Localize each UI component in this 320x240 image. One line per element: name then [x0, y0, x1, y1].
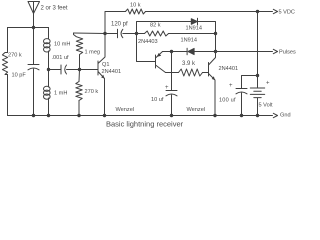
node 10uf junction: [170, 50, 173, 53]
node 2N4403 base junction: [135, 32, 138, 35]
wire bottom rail: [8, 115, 273, 117]
transistor 2N4403: [156, 52, 166, 73]
arrow Gnd: [273, 113, 277, 117]
resistor 82k: [137, 33, 145, 35]
wire 10uf column: [171, 52, 173, 91]
resistor 1meg: [74, 33, 83, 59]
svg-text:Pulses: Pulses: [279, 50, 296, 56]
wire diode bypass branch: [137, 22, 192, 34]
svg-text:Wenzel: Wenzel: [116, 107, 135, 113]
svg-text:270 k: 270 k: [85, 89, 99, 95]
wire below 1mH: [48, 98, 50, 116]
wire top rail to 5VDC: [146, 11, 273, 13]
wire 3.9k to Q2 base: [203, 72, 209, 74]
svg-text:+: +: [165, 85, 169, 91]
wire 1meg bottom lead: [79, 59, 81, 70]
capacitor .001uf: [61, 65, 67, 74]
svg-text:1N914: 1N914: [181, 38, 197, 44]
wire coil column top: [48, 28, 50, 40]
svg-text:10 mH: 10 mH: [54, 42, 70, 48]
svg-text:+: +: [229, 83, 233, 89]
node battery branch junction: [256, 74, 259, 77]
watermark Wenzel left: [116, 107, 135, 113]
inductor 1mH: [44, 86, 51, 91]
wire 2N4403 base drop: [137, 34, 156, 62]
wire between coils: [48, 51, 50, 87]
svg-text:2 or 3 feet: 2 or 3 feet: [41, 6, 68, 12]
svg-text:270 k: 270 k: [8, 53, 22, 59]
svg-text:2N4401: 2N4401: [219, 66, 239, 72]
antenna label: [41, 6, 68, 12]
node Q1 collector/120pF junction: [103, 32, 106, 35]
wire 82k to node: [169, 33, 216, 35]
svg-text:+: +: [266, 81, 270, 87]
svg-text:120 pf: 120 pf: [111, 22, 128, 28]
wire Q1 collector riser to top rail: [105, 12, 126, 34]
svg-text:2N4401: 2N4401: [102, 69, 122, 75]
wire node column: [215, 34, 217, 52]
inductor 10mH: [44, 39, 51, 44]
node antenna junction: [32, 26, 35, 29]
wire .001uf row right to Q1 base: [67, 69, 99, 71]
svg-text:10 pF: 10 pF: [12, 73, 27, 79]
svg-text:10 k: 10 k: [130, 3, 141, 9]
node Q1 base junction: [78, 68, 81, 71]
resistor 3.9k: [179, 69, 203, 76]
wire 1meg to Q1 collector node: [74, 32, 106, 35]
wire top-left horizontal: [8, 27, 49, 29]
wire 2N4403 collector to 3.9k: [166, 72, 179, 74]
svg-text:1 meg: 1 meg: [85, 50, 101, 56]
svg-text:Basic lightning receiver: Basic lightning receiver: [106, 120, 184, 129]
svg-text:1 mH: 1 mH: [54, 91, 67, 97]
svg-text:1N914: 1N914: [186, 26, 202, 32]
wire battery column: [257, 12, 259, 88]
wire below 10pF: [33, 69, 35, 116]
wire pulses row right: [216, 51, 273, 53]
wire .001uf row left: [49, 69, 62, 71]
wire antenna column upper: [33, 28, 35, 65]
capacitor 100uf: [236, 89, 247, 116]
diode 1N914 top: [191, 19, 197, 25]
watermark Wenzel right: [187, 107, 206, 113]
node dot001: [47, 68, 50, 71]
node rail dots: [32, 114, 35, 117]
capacitor 120pF: [105, 29, 137, 37]
svg-text:100 uf: 100 uf: [219, 98, 236, 104]
svg-text:.001 uf: .001 uf: [52, 55, 70, 61]
diode 1N914 mid: [188, 48, 194, 54]
resistor 10k: [126, 9, 146, 14]
svg-text:5 Volt: 5 Volt: [259, 103, 273, 109]
arrow Pulses: [273, 49, 277, 53]
svg-text:Gnd: Gnd: [280, 113, 291, 119]
wire left rail lower: [7, 75, 9, 116]
caption: [106, 120, 184, 129]
node pulses junction: [214, 50, 217, 53]
svg-text:3.9 k: 3.9 k: [182, 61, 196, 67]
antenna: [28, 2, 40, 28]
capacitor 10pF: [28, 65, 39, 70]
svg-text:10 uf: 10 uf: [151, 97, 164, 103]
transistor Q1 2N4401: [98, 34, 105, 116]
wire pulses row left: [163, 51, 188, 53]
resistor 270k right: [76, 82, 82, 101]
battery 5 Volt: [250, 88, 264, 116]
wire left rail upper: [7, 28, 9, 53]
node battery top junction: [256, 10, 259, 13]
wire 100uf branch: [242, 76, 258, 89]
svg-text:5 VDC: 5 VDC: [279, 10, 295, 16]
transistor 2N4401 second: [209, 52, 216, 116]
svg-text:Q1: Q1: [102, 62, 109, 68]
svg-text:2N4403: 2N4403: [138, 39, 158, 45]
node 82k/diode junction: [214, 32, 217, 35]
resistor 270k left: [2, 53, 7, 75]
arrow 5VDC: [273, 9, 277, 13]
wire 270k right leads: [78, 70, 81, 116]
capacitor 10uf: [166, 91, 177, 116]
svg-text:82 k: 82 k: [150, 23, 161, 29]
svg-text:Wenzel: Wenzel: [187, 107, 206, 113]
